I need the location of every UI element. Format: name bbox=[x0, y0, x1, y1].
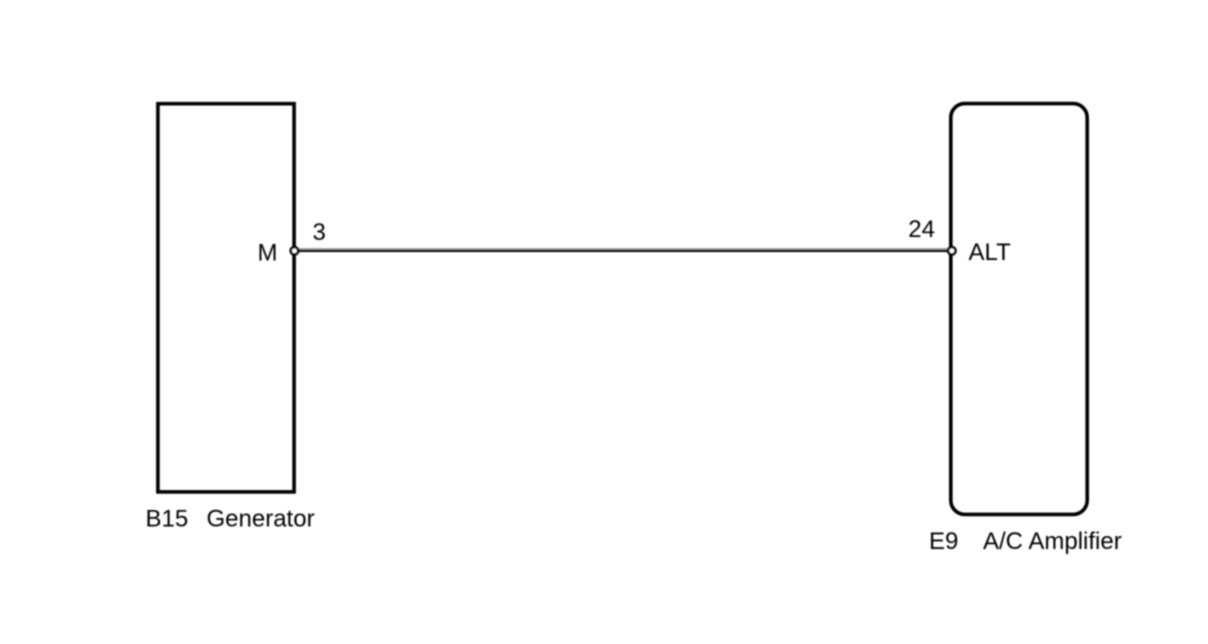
svg-text:Generator: Generator bbox=[207, 505, 315, 532]
connector E9 A/C Amplifier (rounded rectangle) bbox=[951, 104, 1087, 515]
terminal node 24 on E9 bbox=[948, 247, 955, 254]
svg-text:A/C Amplifier: A/C Amplifier bbox=[983, 528, 1122, 555]
svg-text:ALT: ALT bbox=[969, 239, 1012, 266]
svg-text:M: M bbox=[258, 239, 278, 266]
terminal node 3 on B15 bbox=[291, 247, 298, 254]
svg-text:B15: B15 bbox=[146, 505, 189, 532]
wire M3 to ALT24 bbox=[295, 250, 950, 252]
svg-text:24: 24 bbox=[908, 216, 935, 243]
wire antialias highlight bbox=[296, 248, 948, 250]
svg-text:3: 3 bbox=[313, 219, 326, 246]
connector B15 Generator (rectangle) bbox=[158, 104, 294, 492]
svg-text:E9: E9 bbox=[929, 528, 958, 555]
